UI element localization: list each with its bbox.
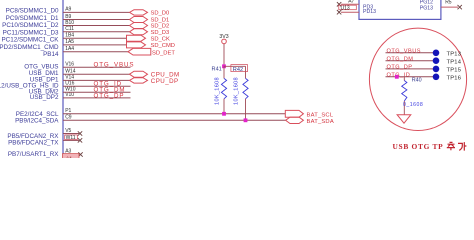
svg-text:PC10/SDMMC1_D2: PC10/SDMMC1_D2 [2,22,59,29]
IC U13 box top right [359,0,441,19]
off-page connector SD_DET [128,48,151,55]
svg-text:TP15: TP15 [447,68,462,74]
no-connect X PB6 [78,138,82,142]
test point TP16 [433,74,440,81]
no-connect X PB7 [78,152,82,156]
wire SD_D2 [63,25,130,27]
junction R41/SCL [222,112,226,116]
svg-text:10K_1608: 10K_1608 [215,77,221,105]
svg-text:SD_D0: SD_D0 [151,10,170,16]
svg-text:U13: U13 [341,5,350,11]
refdes U13 boxed [339,5,357,10]
off-page connector SD_CMD [127,42,146,48]
svg-text:TP13: TP13 [447,52,462,58]
wire SD_D3 [63,31,130,33]
svg-text:C9: C9 [65,115,72,121]
svg-text:A9: A9 [65,7,71,13]
svg-text:PB14: PB14 [43,51,59,58]
svg-text:CPU_DP: CPU_DP [151,78,179,85]
off-page connector CPU_DP [130,78,148,83]
wire SD_D0 [63,11,130,13]
wire OTG_VBUS to TP13 [386,52,434,54]
wire OTG_DP [63,97,131,99]
ground [397,115,411,124]
IC U1 CPU body right edge [62,0,64,158]
off-page connector CPU_DM [130,71,148,77]
svg-text:SD_DET: SD_DET [152,51,175,57]
svg-text:PD2/SDMMC1_CMD: PD2/SDMMC1_CMD [0,44,59,51]
junction 3V3 branch [222,64,226,68]
svg-text:PD13: PD13 [363,9,376,15]
wire SD_D1 [63,19,130,21]
junction R42/SDA [244,118,248,122]
wire SD_CK [63,37,127,39]
svg-text:PG13: PG13 [420,5,433,11]
svg-text:OTG_VBUS: OTG_VBUS [387,49,421,55]
wire CPU_DM [63,73,130,75]
wire BAT_SDA [63,119,286,121]
wire OTG_ID [63,85,131,87]
svg-text:1A5: 1A5 [65,39,74,45]
svg-text:SD_D1: SD_D1 [151,18,170,24]
svg-text:PB7/USART1_RX: PB7/USART1_RX [8,151,59,158]
svg-text:USB_DP2: USB_DP2 [30,94,59,101]
resistor R41 [223,66,225,78]
svg-text:R40: R40 [412,77,422,83]
svg-text:OTG_DP: OTG_DP [387,65,413,71]
no-connect X PB5 [78,131,82,135]
svg-text:R41: R41 [212,67,222,73]
wire 3V3 vertical [223,44,225,67]
resistor R42 [245,66,247,78]
junction OTG_ID / R40 [395,75,399,79]
svg-text:SD_D3: SD_D3 [151,30,170,36]
wire SD_DET [63,51,128,53]
off-page connector SD_D2 [130,23,148,29]
svg-text:1B4: 1B4 [65,33,74,39]
no-connect X PD3 [337,2,341,6]
off-page connector BAT_SDA [286,117,304,123]
pin number W11 boxed [65,135,78,140]
svg-text:TP16: TP16 [447,76,462,82]
svg-text:W14: W14 [65,68,76,74]
svg-text:A7: A7 [348,0,354,4]
test point TP14 [433,57,440,64]
wire OTG_DM [63,91,131,93]
svg-text:C11: C11 [65,26,74,32]
highlight ellipse [369,28,466,130]
svg-text:PC9/SDMMC1_D1: PC9/SDMMC1_D1 [6,15,59,22]
svg-text:R5: R5 [445,0,452,5]
svg-text:SD_CMD: SD_CMD [151,43,175,49]
wire PB6 no-connect [63,139,79,141]
no-connect X PG13 [458,5,462,9]
svg-text:PC12/SDMMC1_CK: PC12/SDMMC1_CK [1,37,59,44]
svg-text:OTG_VBUS: OTG_VBUS [94,62,135,69]
svg-text:OTG_DM: OTG_DM [387,57,414,63]
svg-text:R42: R42 [233,67,243,73]
off-page connector SD_D0 [130,10,148,15]
wire BAT_SCL [63,113,285,115]
svg-text:BAT_SDA: BAT_SDA [307,119,334,125]
boxed pin label bottom cut [63,154,80,160]
hangul ga [458,142,466,151]
pin PD13 wire [341,11,359,13]
svg-text:USB OTG TP: USB OTG TP [393,142,444,151]
svg-text:0_1608: 0_1608 [403,102,423,108]
svg-text:PB9/I2C4_SDA: PB9/I2C4_SDA [15,117,59,124]
off-page connector SD_CK [127,35,146,41]
resistor R40 [403,77,405,81]
off-page connector BAT_SCL [285,110,303,117]
pin PD3 wire [341,3,359,5]
test point TP13 [433,50,440,57]
svg-text:V5: V5 [65,128,71,134]
off-page connector SD_D1 [130,17,148,23]
pin PG13 wire [441,6,458,8]
svg-text:TP14: TP14 [447,60,462,66]
wire OTG_DP to TP15 [386,68,434,70]
svg-text:SD_CK: SD_CK [151,37,170,43]
wire OTG_DM to TP14 [386,60,434,62]
svg-text:B10: B10 [65,20,74,26]
svg-text:V10: V10 [65,92,74,98]
wire PB7 no-connect [63,154,80,156]
svg-text:A4: A4 [66,156,72,159]
hangul chu [447,142,467,151]
svg-text:PC11/SDMMC1_D3: PC11/SDMMC1_D3 [3,29,59,36]
wire SD_CMD [63,44,127,46]
wire branch to R42 [224,65,246,67]
svg-text:V16: V16 [65,61,74,67]
no-connect X PD13 [337,10,341,14]
svg-text:PC8/SDMMC1_D0: PC8/SDMMC1_D0 [6,7,59,14]
svg-text:PB6/FDCAN2_TX: PB6/FDCAN2_TX [8,140,59,147]
off-page connector SD_D3 [130,29,148,35]
wire PB5 no-connect [63,133,79,135]
wire OTG_ID to TP16 [386,76,434,78]
svg-text:SD_D2: SD_D2 [151,24,170,30]
svg-text:10K_1608: 10K_1608 [234,77,240,105]
svg-text:P1: P1 [65,108,71,114]
wire CPU_DP [63,79,130,81]
test point TP15 [433,66,440,73]
svg-text:OTG_DP: OTG_DP [94,93,125,100]
svg-text:1A4: 1A4 [65,46,74,52]
wire OTG_VBUS [63,66,131,68]
svg-text:BAT_SCL: BAT_SCL [307,112,334,118]
